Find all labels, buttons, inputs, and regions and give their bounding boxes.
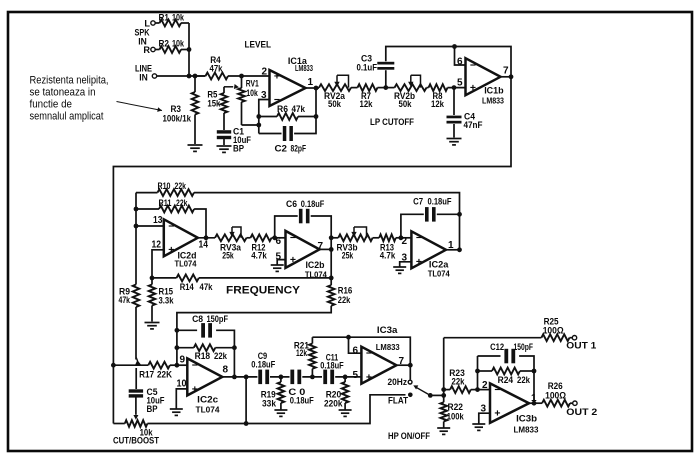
wire: cut/boost wiper chain with C5 xyxy=(135,368,137,389)
svg-text:0.18uF: 0.18uF xyxy=(290,395,314,405)
capacitor C12 (150pF feedback) xyxy=(478,355,501,357)
junction pin3/R6 row xyxy=(256,114,261,119)
junction pot row/IC2c out xyxy=(244,421,249,426)
resistor R19 (33k to ground) xyxy=(280,377,282,382)
capacitor C11 (0.18uF) xyxy=(323,370,327,385)
junction R24 right xyxy=(532,369,537,374)
svg-text:+: + xyxy=(274,70,280,82)
capacitor C2 (82pF feedback) xyxy=(259,133,282,135)
wire: row1 output down-left-down to row2/3 input bus xyxy=(113,77,511,424)
op-amp IC2a (TL074) xyxy=(411,231,446,268)
svg-text:3.3k: 3.3k xyxy=(159,296,175,306)
terminal OUT 2 xyxy=(573,401,577,405)
svg-text:2: 2 xyxy=(482,380,488,391)
wire: R18/C8 right vertical down to output xyxy=(233,348,235,377)
svg-text:2: 2 xyxy=(401,236,407,247)
svg-text:50k: 50k xyxy=(328,99,342,109)
junction RV1-bottom/feedback node xyxy=(256,123,261,128)
resistor R17 (22K input) xyxy=(113,364,148,366)
op-amp IC2c (TL074) xyxy=(187,358,222,395)
wire: IC1b output xyxy=(501,76,512,78)
svg-text:4.7k: 4.7k xyxy=(251,251,267,261)
svg-text:R14: R14 xyxy=(180,282,195,292)
IC2c pin10 ground stub xyxy=(176,389,187,409)
wire: switch common to R22/R23 node xyxy=(430,394,443,396)
svg-text:6: 6 xyxy=(275,236,281,247)
junction IC1b output xyxy=(509,74,514,79)
resistor R16 (22k to row 3) xyxy=(330,278,332,285)
ground below R22 xyxy=(437,428,450,434)
svg-text:Rezistenta nelipita,: Rezistenta nelipita, xyxy=(30,75,109,87)
svg-text:LM833: LM833 xyxy=(376,343,401,352)
op-amp IC1b (LM833) xyxy=(466,58,501,95)
junction R8/C4 (IC1b pin5) xyxy=(452,85,457,90)
capacitor C7 (0.18uF feedback) xyxy=(401,214,424,238)
wire: IC1a pin3 feedback vertical xyxy=(259,100,270,134)
svg-text:C6: C6 xyxy=(286,199,297,209)
resistor R14 xyxy=(177,275,199,282)
ground below R3 xyxy=(188,145,203,151)
svg-text:5: 5 xyxy=(275,252,281,263)
junction C11/R20 (pin5 IC3a) xyxy=(343,375,348,380)
resistor R18 (22k feedback) xyxy=(177,347,194,349)
svg-text:R11: R11 xyxy=(159,198,172,208)
wire: pot row right to FLAT contact xyxy=(147,395,405,424)
resistor R22 (100k to ground) xyxy=(440,402,447,421)
svg-text:semnalul amplicat: semnalul amplicat xyxy=(30,111,104,123)
svg-text:functie de: functie de xyxy=(30,99,73,111)
svg-text:14: 14 xyxy=(199,240,209,251)
wire: R14 damping row (FREQUENCY row) xyxy=(152,277,177,279)
junction R6/output vertical xyxy=(314,114,319,119)
resistor R21 (12k to IC3a loop) xyxy=(311,369,313,377)
capacitor C5 (electrolytic 10uF BP) xyxy=(129,389,143,392)
ground below R15 xyxy=(145,323,160,329)
svg-text:IN: IN xyxy=(139,73,148,83)
svg-text:47k: 47k xyxy=(292,104,306,114)
op-amp IC3a (LM833) xyxy=(361,347,396,384)
svg-text:7: 7 xyxy=(503,66,509,77)
svg-text:5: 5 xyxy=(457,78,463,89)
potentiometer 10k CUT/BOOST xyxy=(113,423,124,425)
svg-text:12: 12 xyxy=(152,240,162,251)
svg-text:4.7k: 4.7k xyxy=(380,251,396,261)
resistor R15 (3.3k to ground) xyxy=(151,278,153,285)
junction C10/R21 xyxy=(310,375,315,380)
svg-text:C8: C8 xyxy=(192,314,203,324)
svg-text:7: 7 xyxy=(318,241,324,252)
wire: IC1b pin6 feedback to output xyxy=(455,47,466,66)
svg-text:150pF: 150pF xyxy=(207,314,229,324)
resistor R4 xyxy=(195,75,206,77)
junction R12/C6 (pin6 IC2b) xyxy=(272,235,277,240)
IC2b pin5 ground stub xyxy=(277,260,285,265)
wire: feedback right vertical to output xyxy=(533,371,535,403)
junction pin6-loop/C3 top run xyxy=(452,44,457,49)
wire: IC3a output xyxy=(396,364,410,366)
junction R14/R16 top xyxy=(329,276,334,281)
svg-text:12k: 12k xyxy=(360,99,374,109)
potentiometer RV1 (level) xyxy=(241,76,243,88)
resistor R26 (100 ohm) xyxy=(542,400,570,407)
svg-text:100k: 100k xyxy=(447,412,465,422)
junction R18/C8 right vertical xyxy=(232,345,237,350)
svg-text:+: + xyxy=(366,371,372,383)
svg-text:LM833: LM833 xyxy=(482,97,505,106)
junction R2/bus xyxy=(187,47,192,52)
svg-text:LP CUTOFF: LP CUTOFF xyxy=(370,117,414,127)
svg-text:RV1: RV1 xyxy=(246,79,259,89)
junction loop/pin6 drop xyxy=(346,335,351,340)
svg-text:+: + xyxy=(470,82,476,94)
svg-text:R17: R17 xyxy=(139,370,154,380)
capacitor C1 (electrolytic 10uF BP) xyxy=(217,130,231,133)
ground below R19 xyxy=(274,410,287,416)
junction IC2a output xyxy=(457,247,462,252)
resistor R6 (feedback) xyxy=(259,116,277,118)
wire: speaker summing bus down to line input xyxy=(188,23,190,76)
ground at IC2b pin5 xyxy=(271,265,284,271)
wire: pin2 input xyxy=(478,389,491,391)
svg-text:LM833: LM833 xyxy=(514,426,540,435)
svg-text:−: − xyxy=(494,384,500,396)
wire: IC3b output xyxy=(529,402,542,404)
wire: output down to 20Hz contact xyxy=(409,365,411,380)
svg-text:22K: 22K xyxy=(157,370,172,380)
junction IC3a output xyxy=(408,363,413,368)
svg-text:12k: 12k xyxy=(431,99,445,109)
svg-text:22k: 22k xyxy=(338,295,351,305)
op-amp IC3b (LM833) xyxy=(490,383,529,423)
svg-text:0.18uF: 0.18uF xyxy=(301,199,325,209)
svg-text:+: + xyxy=(168,244,174,256)
svg-text:47nF: 47nF xyxy=(464,120,483,130)
junction IC3b output xyxy=(532,401,537,406)
svg-text:10k: 10k xyxy=(172,39,185,49)
svg-text:10k: 10k xyxy=(172,13,185,23)
wire: IC2c output down to cut/boost row xyxy=(245,377,247,424)
junction R23/pin2 IC3b xyxy=(475,387,480,392)
wire RV2a-R7 xyxy=(351,87,356,89)
svg-text:R2: R2 xyxy=(159,39,170,49)
op-amp IC2b (TL074) xyxy=(286,231,320,268)
svg-text:22k: 22k xyxy=(175,181,187,191)
junction pin13 row xyxy=(134,224,139,229)
wire: IC3a feedback loop xyxy=(312,337,410,365)
svg-text:0.18uF: 0.18uF xyxy=(428,197,452,207)
svg-text:22k: 22k xyxy=(452,377,466,387)
resistor R12 xyxy=(247,237,251,239)
svg-text:10k: 10k xyxy=(246,88,258,98)
resistor R3 (optional, to ground) xyxy=(194,76,196,92)
svg-text:LM833: LM833 xyxy=(295,64,313,73)
resistor R5 xyxy=(223,87,225,93)
svg-text:R: R xyxy=(143,45,150,55)
junction R4/RV1 top xyxy=(239,74,244,79)
junction C8 row left xyxy=(175,328,180,333)
svg-text:1: 1 xyxy=(308,77,314,88)
wire: line input row xyxy=(157,75,206,77)
RV1 wiper arrow and wire to R5 xyxy=(224,86,233,88)
switch lever (HP on/off) xyxy=(415,387,430,396)
svg-text:R16: R16 xyxy=(338,286,353,296)
svg-text:22k: 22k xyxy=(214,351,228,361)
svg-text:0.1uF: 0.1uF xyxy=(357,63,378,73)
svg-text:0.18uF: 0.18uF xyxy=(251,359,275,369)
svg-text:FLAT: FLAT xyxy=(388,395,408,405)
junction pin12/R14/R15 xyxy=(150,276,155,281)
capacitor C3 (0.1uF) and wire up to IC1b output node xyxy=(385,70,387,87)
svg-text:100k/1k: 100k/1k xyxy=(163,114,192,124)
junction C8R18/output xyxy=(232,375,237,380)
resistor R20 (220k to ground) xyxy=(344,377,346,382)
wire: IC2c output row xyxy=(222,376,257,378)
switch contact 20Hz xyxy=(408,380,412,384)
junction R13/C7 (pin2 IC2a) xyxy=(399,235,404,240)
resistor R7 xyxy=(356,87,358,89)
svg-text:25k: 25k xyxy=(342,251,354,261)
svg-text:C2: C2 xyxy=(275,144,288,154)
svg-text:IC3a: IC3a xyxy=(377,325,398,336)
junction R24 left xyxy=(475,369,480,374)
junction output/pot-row vertical xyxy=(244,375,249,380)
junction IC2b output node vertical xyxy=(329,247,334,252)
svg-text:se tatoneaza in: se tatoneaza in xyxy=(30,87,96,99)
svg-text:6: 6 xyxy=(352,346,358,357)
svg-text:C12: C12 xyxy=(490,342,504,352)
svg-text:TL074: TL074 xyxy=(196,406,221,415)
wire RV2b row xyxy=(386,87,395,89)
junction IC1a output xyxy=(314,86,319,91)
resistor R25 (100 ohm) xyxy=(541,334,569,341)
ground at IC2a pin3 xyxy=(393,267,406,273)
svg-text:R3: R3 xyxy=(171,104,182,114)
capacitor C4 (47nF) xyxy=(453,88,455,115)
svg-text:47k: 47k xyxy=(200,282,214,292)
wire: input node vertical (R10/R11/pin13/R9) xyxy=(135,193,137,285)
junction IC2d output/R11 xyxy=(204,235,209,240)
svg-text:100Ω: 100Ω xyxy=(543,325,564,335)
svg-text:IC2c: IC2c xyxy=(197,395,218,406)
svg-text:13: 13 xyxy=(153,215,163,226)
svg-text:12k: 12k xyxy=(296,348,308,358)
capacitor C8 (150pF feedback) xyxy=(177,329,197,331)
resistor R13 xyxy=(373,237,380,239)
wire: pin 12 to R15/R14 node xyxy=(152,250,164,278)
junction common/R23 xyxy=(441,387,446,392)
resistor R9 (47k from main bus node up to pin13 node) xyxy=(133,285,140,308)
svg-text:50k: 50k xyxy=(399,99,413,109)
svg-text:HP ON/OFF: HP ON/OFF xyxy=(388,431,430,441)
junction R7/C3 xyxy=(383,85,388,90)
resistor R24 (22k feedback) xyxy=(478,370,493,372)
junction C7/R10 vertical xyxy=(457,212,462,217)
svg-text:−: − xyxy=(470,59,476,71)
ground below C4 xyxy=(447,139,462,145)
wire: loop down to pin 6 xyxy=(349,337,362,353)
svg-text:CUT/BOOST: CUT/BOOST xyxy=(113,436,159,446)
svg-text:82pF: 82pF xyxy=(291,144,307,154)
junction R18 row left xyxy=(175,345,180,350)
wire: RV1 bottom to IC1a pin3 node xyxy=(242,124,259,126)
resistor R2 xyxy=(155,49,159,51)
potentiometer RV3b (frequency b) xyxy=(331,237,338,239)
junction R3 top xyxy=(193,74,198,79)
resistor R8 xyxy=(427,87,429,89)
wire: bandpass node vertical (C6 right/RV3b/output/R14/R16) xyxy=(330,238,332,278)
op-amp IC1a (LM833) xyxy=(270,70,306,106)
wire: IC2a output xyxy=(446,249,460,251)
svg-text:47k: 47k xyxy=(210,64,224,74)
potentiometer RV3a (frequency a) xyxy=(215,234,247,241)
annotation arrow pointing to R3 xyxy=(117,102,163,111)
resistor R11 (feedback from IC2d output) xyxy=(136,208,159,210)
svg-text:−: − xyxy=(366,348,372,360)
svg-text:20Hz: 20Hz xyxy=(388,377,408,387)
wire: IC1a output xyxy=(306,87,320,89)
wire: IC2d output xyxy=(198,237,215,239)
C5 wiper arrow onto 10k pot xyxy=(133,415,138,420)
wire: IC3b feedback left vertical xyxy=(477,356,479,390)
capacitor C10 (0.18uF) xyxy=(290,370,294,385)
ground at IC2c pin10 xyxy=(170,409,183,415)
junction common/lever xyxy=(441,393,446,398)
svg-text:220k: 220k xyxy=(324,399,343,409)
junction bus/R17 xyxy=(111,363,116,368)
svg-text:TL074: TL074 xyxy=(175,260,198,269)
wire: common node to R25 xyxy=(444,337,542,339)
svg-text:−: − xyxy=(416,232,422,244)
svg-text:22k: 22k xyxy=(517,375,531,385)
svg-text:+: + xyxy=(416,256,422,268)
svg-text:5: 5 xyxy=(352,370,358,381)
svg-text:OUT 1: OUT 1 xyxy=(566,341,596,351)
IC2a pin3 ground stub xyxy=(400,262,412,267)
svg-text:R1: R1 xyxy=(159,13,170,23)
svg-text:2: 2 xyxy=(261,67,267,78)
op-amp IC2d (TL074) xyxy=(164,219,198,256)
svg-text:25k: 25k xyxy=(222,251,234,261)
potentiometer RV2b (LP cutoff b) xyxy=(395,84,427,91)
svg-text:47k: 47k xyxy=(119,295,131,305)
svg-text:TL074: TL074 xyxy=(428,269,451,278)
junction R11 row xyxy=(134,207,139,212)
ground at IC3b pin3 xyxy=(472,424,485,430)
svg-text:22k: 22k xyxy=(176,198,188,208)
svg-text:+: + xyxy=(494,408,500,420)
svg-text:IC3b: IC3b xyxy=(516,414,537,425)
svg-text:+: + xyxy=(290,254,296,266)
terminal R (speaker input right) xyxy=(151,47,155,51)
svg-text:IC2b: IC2b xyxy=(306,260,325,271)
wire: pin 13 input xyxy=(136,225,164,227)
capacitor C9 (0.18uF) xyxy=(258,370,262,385)
wire: pin 9 input xyxy=(177,364,187,366)
svg-text:BP: BP xyxy=(147,404,158,414)
switch contact FLAT (filled) xyxy=(408,393,413,398)
svg-text:0.18uF: 0.18uF xyxy=(320,360,344,370)
svg-text:R22: R22 xyxy=(448,402,464,412)
junction bus/line-in row xyxy=(187,74,192,79)
potentiometer RV2a (LP cutoff a) xyxy=(319,84,351,91)
svg-text:100Ω: 100Ω xyxy=(545,390,566,400)
svg-text:R6: R6 xyxy=(277,104,288,114)
svg-text:10: 10 xyxy=(177,379,187,390)
capacitor C6 (0.18uF feedback) xyxy=(275,216,298,238)
svg-text:C7: C7 xyxy=(413,197,423,207)
svg-text:R10: R10 xyxy=(158,181,171,191)
switch common junction xyxy=(428,393,433,398)
svg-text:−: − xyxy=(168,220,174,232)
wire: IC2b output xyxy=(319,248,331,250)
resistor R1 xyxy=(155,22,159,24)
terminal OUT 1 xyxy=(572,336,576,340)
svg-text:8: 8 xyxy=(223,365,229,376)
svg-text:+: + xyxy=(192,383,198,395)
svg-text:−: − xyxy=(192,360,198,372)
resistor R10 (feedback from IC2a output) xyxy=(136,192,158,194)
ground below R20 xyxy=(339,410,352,416)
wire: common node vertical (R25 feed/R23/R22) xyxy=(443,338,445,403)
junction C9/R19 xyxy=(279,375,284,380)
R9 arrow into R17 junction xyxy=(136,358,137,362)
svg-text:FREQUENCY: FREQUENCY xyxy=(226,285,301,297)
terminal LINE input xyxy=(152,74,156,78)
svg-text:BP: BP xyxy=(233,144,244,154)
junction RV3b tap xyxy=(329,235,334,240)
svg-text:9: 9 xyxy=(180,355,186,366)
terminal L (speaker input left) xyxy=(151,21,155,25)
svg-text:LEVEL: LEVEL xyxy=(245,40,272,50)
svg-text:−: − xyxy=(290,232,296,244)
svg-text:IC1b: IC1b xyxy=(484,86,504,97)
svg-text:15k: 15k xyxy=(207,99,221,109)
IC3b pin3 ground stub xyxy=(479,413,490,423)
svg-text:OUT 2: OUT 2 xyxy=(566,407,597,417)
svg-text:33k: 33k xyxy=(262,399,277,409)
junction pin9/R17/R16 xyxy=(175,363,180,368)
ground below C1 xyxy=(217,146,232,152)
svg-text:150pF: 150pF xyxy=(514,342,534,352)
resistor R23 (22k) xyxy=(444,389,450,391)
